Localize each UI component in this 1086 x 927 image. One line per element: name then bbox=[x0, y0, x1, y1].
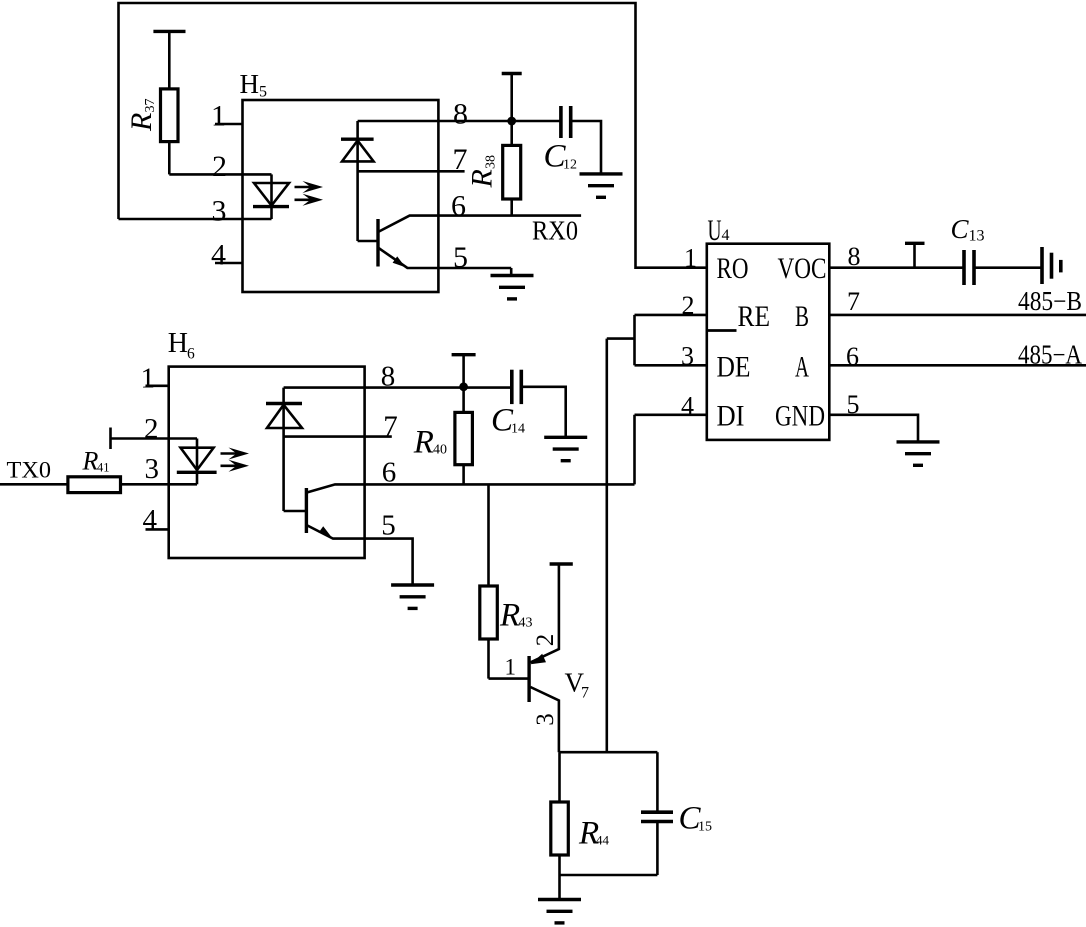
svg-text:1: 1 bbox=[684, 244, 697, 273]
svg-text:B: B bbox=[795, 300, 809, 333]
svg-text:5: 5 bbox=[259, 84, 267, 101]
svg-text:4: 4 bbox=[211, 239, 226, 272]
svg-text:6: 6 bbox=[187, 346, 195, 363]
svg-text:1: 1 bbox=[211, 100, 226, 133]
svg-text:7: 7 bbox=[847, 287, 860, 316]
svg-text:2: 2 bbox=[144, 413, 159, 445]
svg-text:U: U bbox=[708, 214, 722, 247]
svg-text:A: A bbox=[795, 351, 809, 384]
svg-text:4: 4 bbox=[681, 392, 694, 421]
svg-text:R: R bbox=[82, 447, 99, 476]
svg-text:2: 2 bbox=[212, 150, 227, 183]
svg-text:TX0: TX0 bbox=[7, 458, 51, 483]
svg-text:8: 8 bbox=[848, 242, 861, 271]
svg-text:6: 6 bbox=[451, 190, 466, 223]
svg-text:R: R bbox=[499, 598, 520, 634]
svg-text:44: 44 bbox=[596, 833, 610, 848]
svg-text:3: 3 bbox=[681, 342, 694, 371]
svg-text:37: 37 bbox=[143, 99, 158, 113]
svg-text:RE: RE bbox=[738, 300, 771, 333]
svg-text:5: 5 bbox=[847, 390, 860, 419]
svg-text:12: 12 bbox=[563, 158, 577, 173]
svg-text:13: 13 bbox=[969, 228, 985, 245]
svg-text:43: 43 bbox=[519, 616, 533, 631]
svg-text:8: 8 bbox=[453, 98, 468, 131]
svg-text:3: 3 bbox=[145, 453, 160, 485]
svg-text:DI: DI bbox=[717, 400, 745, 433]
svg-text:38: 38 bbox=[484, 155, 499, 169]
svg-text:2: 2 bbox=[682, 291, 695, 320]
svg-text:2: 2 bbox=[532, 634, 559, 647]
svg-text:6: 6 bbox=[382, 457, 397, 489]
svg-text:R: R bbox=[125, 113, 158, 132]
svg-text:7: 7 bbox=[581, 685, 589, 702]
svg-text:H: H bbox=[168, 328, 188, 359]
svg-text:5: 5 bbox=[453, 241, 468, 274]
svg-text:3: 3 bbox=[532, 713, 559, 726]
svg-text:4: 4 bbox=[722, 227, 730, 244]
svg-text:R: R bbox=[466, 169, 499, 188]
svg-text:4: 4 bbox=[143, 504, 158, 536]
svg-text:485−B: 485−B bbox=[1018, 286, 1082, 316]
svg-text:VOC: VOC bbox=[778, 252, 827, 285]
svg-text:1: 1 bbox=[505, 655, 517, 680]
svg-text:H: H bbox=[240, 69, 260, 99]
svg-text:C: C bbox=[951, 214, 970, 244]
svg-text:15: 15 bbox=[698, 820, 712, 835]
svg-text:1: 1 bbox=[141, 363, 156, 395]
svg-text:5: 5 bbox=[381, 510, 396, 542]
svg-text:41: 41 bbox=[97, 461, 110, 475]
svg-text:R: R bbox=[413, 425, 434, 461]
svg-text:6: 6 bbox=[846, 342, 859, 371]
svg-text:DE: DE bbox=[717, 351, 751, 384]
svg-text:RO: RO bbox=[717, 252, 749, 285]
svg-text:7: 7 bbox=[383, 411, 398, 443]
svg-text:8: 8 bbox=[381, 361, 396, 393]
svg-text:3: 3 bbox=[212, 195, 227, 228]
svg-text:GND: GND bbox=[775, 400, 825, 433]
svg-text:40: 40 bbox=[433, 443, 447, 458]
svg-text:RX0: RX0 bbox=[532, 216, 578, 246]
svg-text:485−A: 485−A bbox=[1018, 340, 1082, 370]
svg-text:14: 14 bbox=[511, 422, 525, 437]
